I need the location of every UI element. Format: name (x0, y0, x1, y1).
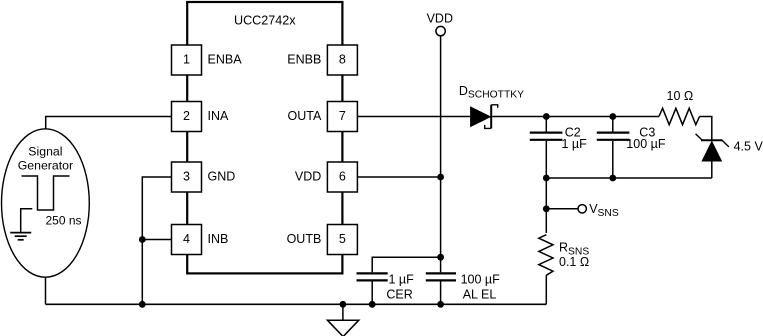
pin 6 box (327, 162, 357, 192)
signal generator ellipse (2, 129, 90, 277)
svg-text:UCC2742x: UCC2742x (234, 14, 296, 28)
pin 3 box (172, 162, 202, 192)
capacitor C3 (597, 117, 630, 179)
pin label GND (208, 170, 236, 184)
svg-text:ENBA: ENBA (208, 53, 243, 67)
resistor 10 ohm (659, 108, 700, 124)
label UCC2742x (234, 14, 296, 28)
node C3 top junction (609, 113, 616, 120)
pin label OUTB (287, 232, 322, 246)
wire resistor to zener (700, 117, 712, 141)
svg-text:INA: INA (208, 109, 230, 123)
svg-text:7: 7 (339, 109, 346, 123)
svg-text:Signal: Signal (28, 144, 62, 158)
label C2 1uF (562, 125, 588, 151)
svg-text:100 µF: 100 µF (626, 137, 666, 151)
pin 2 box (172, 102, 202, 132)
svg-text:CER: CER (386, 287, 412, 301)
pin label ENBB (287, 53, 321, 67)
label 100uF AL EL (461, 272, 501, 301)
node VDD pin6 junction (437, 174, 444, 181)
svg-text:2: 2 (183, 109, 190, 123)
svg-text:6: 6 (339, 170, 346, 184)
IC U1 UCC2742x body (187, 2, 342, 273)
pin 4 box (172, 225, 202, 255)
diode D_SCHOTTKY (471, 105, 498, 129)
svg-text:10 Ω: 10 Ω (667, 89, 694, 103)
pin label VDD (295, 170, 321, 184)
svg-text:Generator: Generator (18, 159, 73, 173)
label 250 ns (46, 213, 82, 227)
pin 8 box (327, 45, 357, 75)
svg-text:GND: GND (208, 170, 236, 184)
svg-text:3: 3 (183, 170, 190, 184)
pulse waveform (22, 176, 70, 210)
label 10 ohm (667, 89, 694, 103)
svg-text:1: 1 (183, 53, 190, 67)
svg-text:250 ns: 250 ns (46, 213, 82, 227)
wire signal generator bottom to ground rail (45, 277, 47, 304)
svg-text:100 µF: 100 µF (461, 272, 501, 286)
pin label ENBA (208, 53, 243, 67)
node C2 bottom junction (543, 175, 550, 182)
capacitor C2 (530, 117, 563, 179)
label 4.5 V (734, 139, 763, 153)
svg-text:OUTB: OUTB (287, 232, 322, 246)
svg-text:4.5 V: 4.5 V (734, 139, 763, 153)
node C2 top junction (543, 113, 550, 120)
resistor RSNS (539, 235, 553, 305)
pin 1 box (172, 45, 202, 75)
label RSNS 0.1 ohm (559, 241, 589, 269)
pin label OUTA (288, 109, 322, 123)
svg-text:INB: INB (208, 232, 229, 246)
ground symbol bottom (327, 304, 358, 336)
node VDD rail junction (437, 301, 444, 308)
svg-text:AL EL: AL EL (463, 287, 497, 301)
zener diode 4.5V (696, 134, 729, 178)
capacitor 100uF AL EL (426, 273, 456, 280)
pin 5 box (327, 225, 357, 255)
svg-text:0.1 Ω: 0.1 Ω (559, 255, 589, 269)
wire INA from signal generator to pin 2 (46, 117, 172, 130)
pin label INB (208, 232, 229, 246)
wire INB branch to pin 4 (142, 239, 171, 241)
label C3 100uF (626, 125, 666, 151)
pin 7 box (327, 102, 357, 132)
svg-text:4: 4 (183, 232, 190, 246)
label Signal Generator (18, 144, 73, 172)
label D_SCHOTTKY (459, 84, 524, 101)
svg-text:8: 8 (339, 53, 346, 67)
svg-text:VDD: VDD (295, 170, 321, 184)
pin label INA (208, 109, 230, 123)
svg-text:OUTA: OUTA (288, 109, 322, 123)
label 1uF CER (386, 272, 414, 301)
node GND rail junction (139, 301, 146, 308)
terminal VSNS (546, 205, 586, 213)
node ground junction (340, 301, 347, 308)
wire pin 6 VDD to vertical (357, 176, 440, 178)
svg-text:5: 5 (339, 232, 346, 246)
wire diode cathode to resistor (492, 116, 659, 118)
wire VDD vertical (440, 36, 442, 305)
label VSNS (589, 202, 619, 219)
VDD terminal (427, 11, 453, 36)
wire lower rail C2 C3 zener (546, 177, 712, 179)
node GND-INB junction (139, 236, 146, 243)
wire bottom ground rail (46, 303, 547, 305)
svg-text:1 µF: 1 µF (389, 272, 415, 286)
wire C2 bottom to VSNS node (545, 178, 547, 233)
svg-text:1 µF: 1 µF (562, 137, 588, 151)
node C3 bottom junction (609, 175, 616, 182)
svg-text:ENBB: ENBB (287, 53, 321, 67)
wire OUTA from pin 7 to diode (357, 116, 470, 118)
node VDD cap branch junction (437, 254, 444, 261)
capacitor 1uF CER (357, 257, 441, 304)
node VSNS junction (543, 205, 550, 212)
ground earth symbol inside generator (10, 209, 32, 240)
svg-text:VDD: VDD (427, 11, 453, 25)
node 1uF cap rail junction (369, 301, 376, 308)
wire GND branch from pin 3 (142, 177, 171, 304)
